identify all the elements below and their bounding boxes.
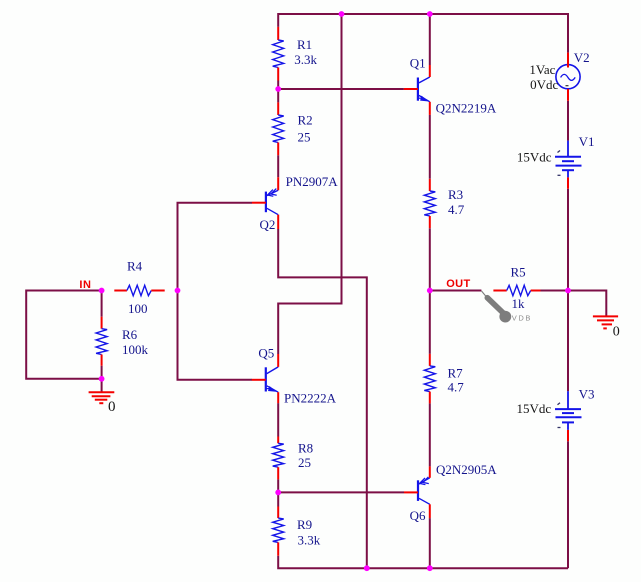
resistor R2 body (273, 115, 284, 143)
junction node IN (99, 288, 105, 294)
svg-text:VDB: VDB (512, 314, 532, 323)
resistor R6 pin 2 (101, 355, 103, 366)
V1 minus mark (558, 174, 561, 176)
svg-text:V2: V2 (574, 50, 590, 65)
svg-text:R5: R5 (511, 264, 526, 279)
V3 minus mark (558, 427, 561, 429)
V1 pin bottom (567, 177, 569, 188)
wire junction to R9 (277, 492, 279, 506)
wire R7 to Q6 emitter (429, 403, 431, 466)
junction R4 / base column (175, 288, 181, 294)
resistor R7 pin 1 (429, 354, 431, 366)
svg-text:1Vac: 1Vac (529, 62, 555, 77)
wire R2 to Q2 emitter (277, 155, 279, 177)
svg-text:0: 0 (613, 325, 620, 340)
transistor Q1 collector (419, 77, 430, 83)
wire top rail to Q1 collector (429, 14, 431, 65)
junction top rail / Q5 collector riser (339, 11, 345, 17)
wire ground stub left (101, 379, 103, 392)
wire Q2 base / Q5 base column (178, 203, 253, 380)
wire V3 to bottom rail (567, 441, 569, 568)
svg-text:V1: V1 (579, 134, 595, 149)
resistor R3 pin 1 (429, 179, 431, 191)
svg-text:R3: R3 (448, 187, 463, 202)
svg-text:Q2N2905A: Q2N2905A (436, 462, 497, 477)
junction R8-R9 / Q6 base (275, 490, 281, 496)
wire R3 to OUT to R7 (429, 228, 431, 354)
transistor Q2 base pin (252, 202, 266, 204)
resistor R1 pin 2 (277, 68, 279, 81)
resistor R5 pin 2 (531, 290, 541, 292)
transistor Q5 base pin (252, 379, 266, 381)
svg-text:R8: R8 (298, 441, 313, 456)
resistor R8 pin 2 (277, 467, 279, 479)
wire V2 to V1 (567, 101, 569, 141)
wire R1/R2 junction to Q1 base (278, 88, 404, 90)
resistor R2 pin 2 (277, 143, 279, 156)
transistor Q1 emitter with arrow (419, 95, 430, 101)
transistor Q5 emitter with arrow (267, 386, 278, 392)
svg-text:PN2222A: PN2222A (284, 390, 337, 405)
resistor R7 pin 2 (429, 392, 431, 404)
wire IN node to R6 (101, 291, 103, 317)
svg-text:Q2N2219A: Q2N2219A (436, 100, 497, 115)
wire Q1 emitter to R3 (429, 115, 431, 179)
V2 minus mark (566, 85, 569, 87)
resistor R3 pin 2 (429, 216, 431, 228)
svg-text:25: 25 (298, 455, 311, 470)
V2 pin bottom (567, 89, 569, 101)
resistor R5 body (507, 285, 531, 295)
wire IN loop (26, 291, 101, 379)
transistor Q5 collector (267, 367, 278, 374)
transistor Q2 collector (267, 208, 278, 214)
resistor R1 pin 1 (277, 27, 279, 40)
ground 0 at input (89, 392, 115, 403)
svg-text:Q2: Q2 (260, 217, 276, 232)
AC source V2 symbol (556, 65, 580, 89)
svg-text:1k: 1k (512, 296, 526, 311)
DC source V3 symbol (567, 391, 569, 409)
transistor Q6 base bar (417, 480, 419, 501)
svg-text:0Vdc: 0Vdc (530, 77, 558, 92)
transistor Q2 base bar (265, 192, 267, 213)
svg-text:IN: IN (79, 279, 91, 291)
svg-text:15Vdc: 15Vdc (517, 401, 552, 416)
resistor R2 pin 1 (277, 102, 279, 115)
resistor R4 body (127, 285, 151, 295)
resistor R6 body (96, 329, 107, 355)
transistor Q1 base pin (404, 88, 418, 90)
resistor R3 body (424, 191, 435, 216)
resistor R8 body (273, 443, 284, 467)
svg-text:OUT: OUT (446, 278, 470, 290)
resistor R9 pin 2 (277, 542, 279, 555)
DC source V1 symbol (567, 141, 569, 157)
resistor R4 pin 2 (151, 290, 164, 292)
resistor R4 pin 1 (114, 290, 127, 292)
resistor R1 body (273, 40, 284, 68)
resistor R7 body (424, 366, 435, 392)
svg-text:3.3k: 3.3k (298, 532, 321, 547)
transistor Q6 emitter with arrow (419, 478, 430, 484)
junction bottom rail / Q2 collector branch (364, 565, 370, 571)
probe marker VDB at OUT (481, 291, 486, 297)
svg-text:100: 100 (128, 301, 148, 316)
svg-text:Q6: Q6 (410, 508, 426, 523)
wire Q6 collector to bottom rail (429, 518, 431, 568)
svg-text:4.7: 4.7 (448, 380, 465, 395)
resistor R9 pin 1 (277, 507, 279, 519)
svg-text:3.3k: 3.3k (294, 52, 317, 67)
svg-text:Q5: Q5 (258, 346, 274, 361)
resistor R9 body (273, 518, 284, 542)
V3 plus mark (558, 403, 561, 405)
wire R9 to bottom rail (278, 556, 568, 569)
resistor R6 pin 1 (101, 317, 103, 329)
wire top rail down to Q5 collector (278, 14, 341, 354)
wire R1 bottom to R2 top (277, 81, 279, 103)
junction top rail / Q1 collector (427, 11, 433, 17)
wire R8 to R8/R9 junction (277, 479, 279, 492)
transistor Q6 collector (419, 498, 430, 504)
svg-text:15Vdc: 15Vdc (517, 150, 552, 165)
transistor Q1 base bar (417, 78, 419, 101)
V1 plus mark (558, 151, 561, 153)
svg-text:R2: R2 (298, 113, 313, 128)
transistor Q6 base pin (404, 491, 418, 493)
wire Q5 emitter to R8 (277, 403, 279, 436)
svg-text:R1: R1 (297, 37, 312, 52)
svg-text:R6: R6 (122, 327, 138, 342)
svg-text:0: 0 (108, 399, 116, 415)
wire Q2 collector down and across to bottom rail (278, 229, 367, 568)
V3 pin bottom (567, 430, 569, 441)
junction R6 bottom / ground (99, 376, 105, 382)
resistor R8 pin 1 (277, 437, 279, 444)
svg-text:Q1: Q1 (410, 56, 426, 71)
V2 pin top (567, 53, 569, 68)
wire V1 to OUT-rail junction to V3 (567, 189, 569, 392)
wire top rail with R1 top stub and V2 top drop (278, 14, 568, 53)
svg-text:R9: R9 (297, 517, 312, 532)
junction R1-R2 / Q1 base (275, 86, 281, 92)
junction node OUT (427, 288, 433, 294)
wire right rail to ground 0 (568, 291, 606, 316)
wire OUT node to probe point (430, 290, 482, 292)
svg-text:R4: R4 (127, 259, 143, 274)
svg-text:100k: 100k (122, 342, 149, 357)
svg-text:V3: V3 (579, 387, 595, 402)
svg-text:4.7: 4.7 (448, 202, 465, 217)
transistor Q5 base bar (265, 367, 267, 391)
transistor Q2 emitter with arrow (267, 190, 278, 195)
resistor R5 pin 1 (493, 290, 506, 292)
wire R8/R9 junction to Q6 base (278, 491, 404, 493)
junction R5 / right rail / ground (565, 288, 571, 294)
svg-text:R7: R7 (448, 366, 464, 381)
wire R5 to right rail (541, 290, 569, 292)
svg-text:25: 25 (298, 129, 311, 144)
ground 0 at right rail (593, 316, 618, 328)
svg-text:PN2907A: PN2907A (286, 174, 339, 189)
junction bottom rail / Q6 collector (427, 565, 433, 571)
wire R6 to ground junction (101, 366, 103, 379)
